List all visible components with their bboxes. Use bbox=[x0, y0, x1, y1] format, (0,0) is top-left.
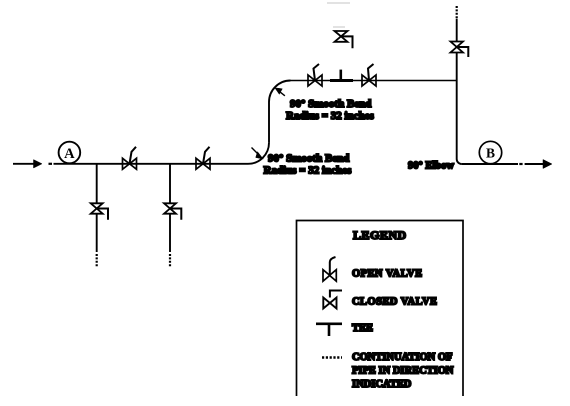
legend symbol: tee bbox=[316, 322, 342, 325]
svg-text:LEGEND: LEGEND bbox=[353, 228, 407, 242]
continuation dot after inlet arrow bbox=[49, 163, 53, 165]
wire: riser between bends bbox=[268, 102, 270, 143]
node A bbox=[59, 142, 81, 164]
wire: left inlet segment bbox=[13, 163, 34, 165]
node B bbox=[479, 141, 501, 163]
svg-text:CLOSED VALVE: CLOSED VALVE bbox=[352, 297, 437, 308]
svg-text:90° Smooth Bend: 90° Smooth Bend bbox=[268, 153, 349, 165]
svg-text:A: A bbox=[64, 146, 75, 162]
continuation dots at branch 2 end bbox=[169, 254, 171, 268]
wire: right drop upper part bbox=[456, 19, 458, 42]
wire: outlet run under node B bbox=[462, 163, 518, 165]
tee on top run bbox=[330, 79, 353, 82]
svg-text:OPEN VALVE: OPEN VALVE bbox=[352, 269, 423, 280]
wire: branch 1 drop bbox=[96, 164, 98, 204]
wire: branch 2 drop bbox=[169, 164, 171, 204]
90 degree smooth bend (lower) bbox=[248, 143, 269, 164]
faint continuation marks above floating valve bbox=[327, 3, 350, 27]
label arrow: upper bend bbox=[278, 90, 285, 96]
wire: top horizontal run bbox=[291, 80, 457, 82]
svg-text:Radius = 32 inches: Radius = 32 inches bbox=[286, 110, 375, 122]
svg-text:Radius = 32 inches: Radius = 32 inches bbox=[264, 165, 353, 177]
arrow: flow direction out of B bbox=[543, 160, 552, 169]
open valve on main run (second) bbox=[196, 147, 210, 170]
open valve on main run (first) bbox=[123, 147, 137, 170]
label arrow: lower bend bbox=[252, 148, 260, 156]
continuation dots at branch 1 end bbox=[96, 254, 98, 268]
open valve on top run (second) bbox=[362, 64, 376, 86]
closed valve on right drop bbox=[451, 42, 469, 58]
svg-text:B: B bbox=[486, 146, 495, 161]
arrow: flow direction into A bbox=[34, 160, 43, 168]
svg-text:90° Elbow: 90° Elbow bbox=[408, 161, 454, 172]
continuation dot on outlet bbox=[519, 163, 522, 165]
svg-text:TEE: TEE bbox=[352, 323, 373, 334]
legend symbol: open valve bbox=[323, 257, 336, 281]
open valve on top run (first) bbox=[308, 64, 322, 86]
svg-text:CONTINUATION OF: CONTINUATION OF bbox=[352, 352, 452, 363]
legend symbol: continuation dots bbox=[322, 356, 342, 358]
legend symbol: closed valve bbox=[323, 291, 342, 309]
svg-text:90° Smooth Bend: 90° Smooth Bend bbox=[290, 98, 371, 110]
svg-text:PIPE IN DIRECTION: PIPE IN DIRECTION bbox=[352, 366, 454, 377]
closed valve on branch 1 bbox=[91, 203, 108, 219]
continuation dots at top of right drop bbox=[456, 6, 458, 18]
legend box bbox=[297, 221, 464, 397]
wire: outlet arrow segment bbox=[525, 163, 545, 165]
svg-text:INDICATED: INDICATED bbox=[352, 379, 412, 390]
wire: branch 1 below valve bbox=[96, 214, 98, 252]
wire: branch 2 below valve bbox=[169, 214, 171, 252]
90 degree elbow corner bbox=[457, 159, 462, 164]
90 degree smooth bend (upper) bbox=[269, 81, 291, 103]
closed valve on branch 2 bbox=[164, 203, 181, 219]
closed valve floating above tee bbox=[335, 31, 353, 48]
wire: right drop lower part bbox=[456, 53, 458, 160]
wire: main horizontal run bbox=[54, 163, 249, 165]
